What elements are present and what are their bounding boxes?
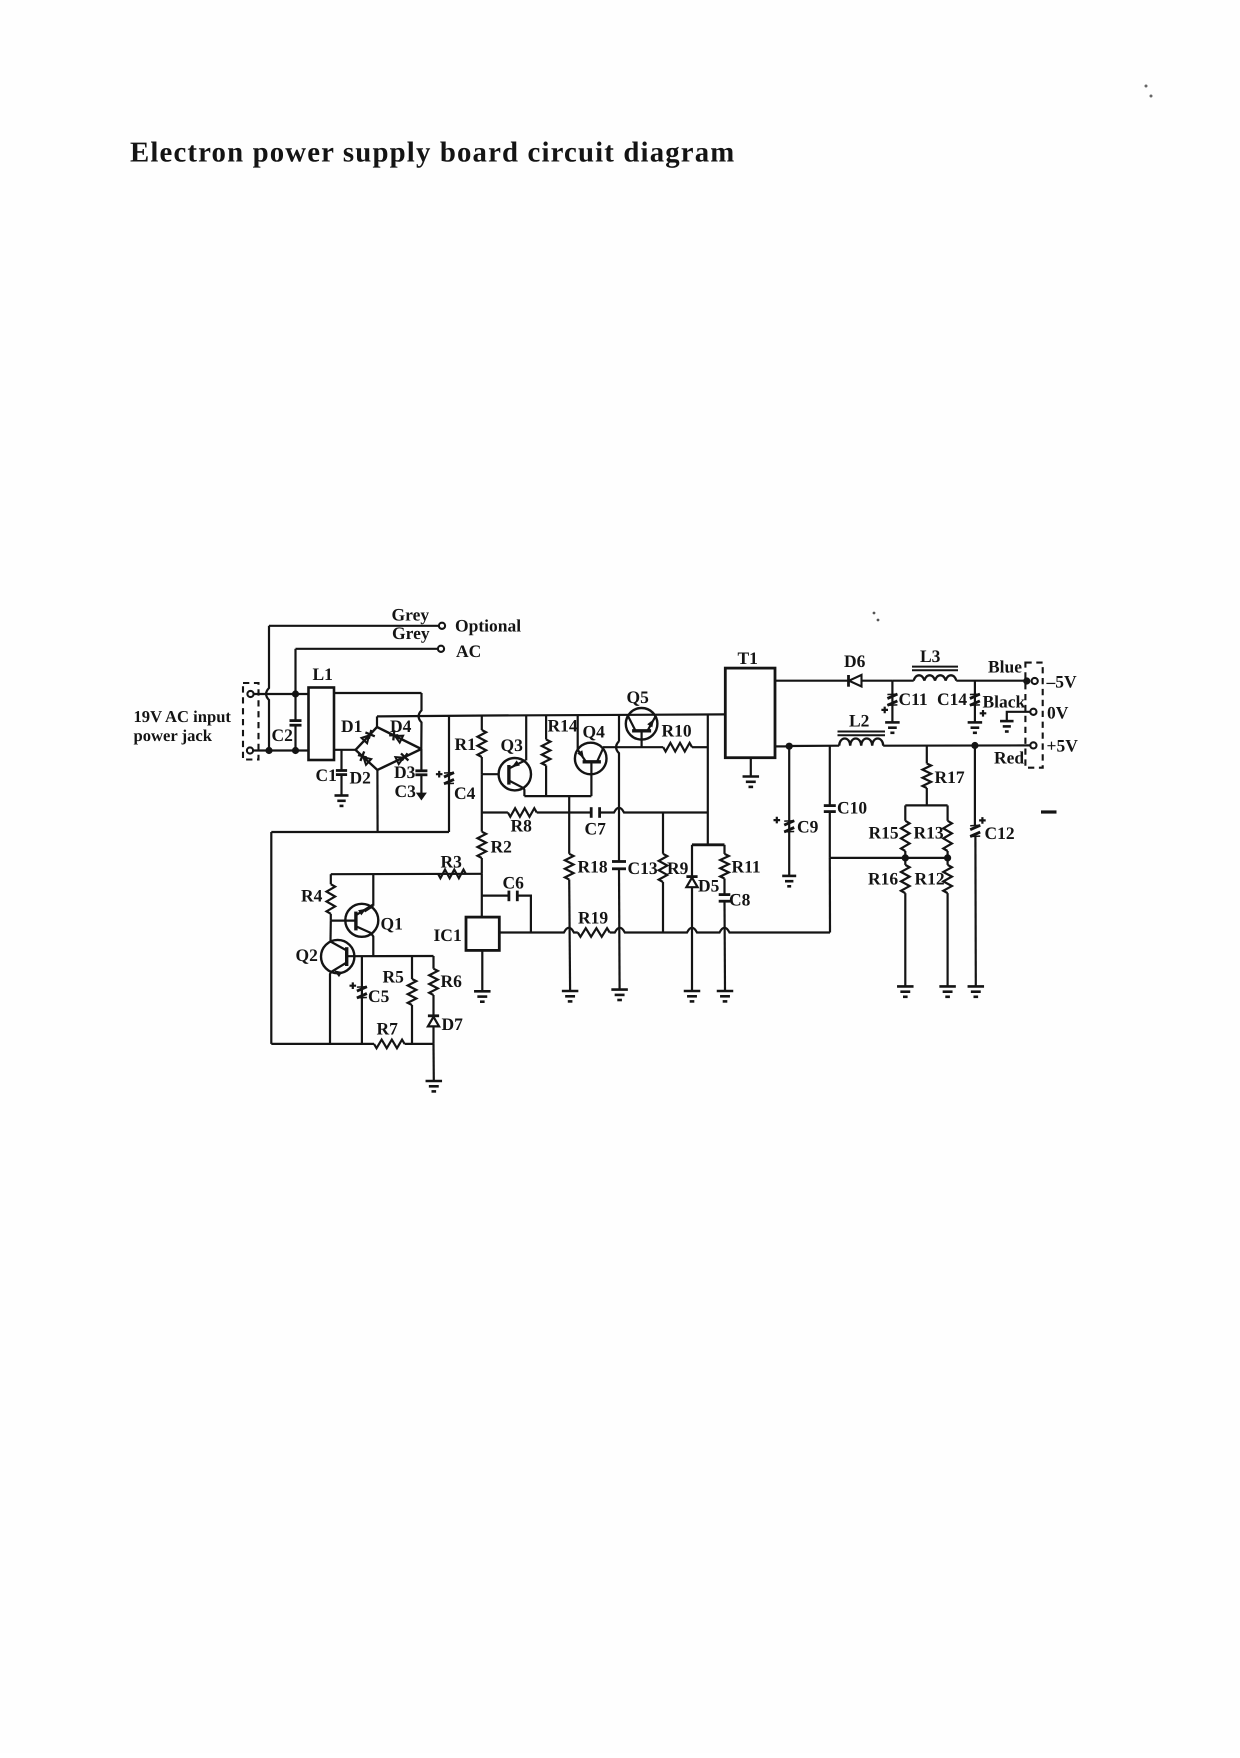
wire Q3 collector drop bbox=[523, 788, 526, 796]
ground at D7 bbox=[426, 1080, 443, 1083]
terminal +5V bbox=[1030, 742, 1036, 748]
svg-text:R8: R8 bbox=[511, 816, 533, 836]
svg-text:D4: D4 bbox=[390, 716, 412, 736]
node dot AC/C2 top bbox=[292, 690, 299, 697]
diode D5 branch bbox=[691, 845, 693, 877]
stray dash mark bbox=[1041, 810, 1057, 813]
capacitor C2 bbox=[294, 694, 296, 720]
node dot C2 bottom bbox=[292, 747, 299, 754]
wire T1 top secondary bbox=[775, 680, 848, 682]
node dot R15/R16 bbox=[902, 854, 909, 861]
ground at C14 bbox=[968, 721, 983, 724]
ground at R18 bbox=[562, 990, 579, 993]
bottom return bus with R7 bbox=[271, 1043, 374, 1045]
svg-text:Q3: Q3 bbox=[501, 735, 524, 755]
wire Q5 base stem bbox=[640, 731, 642, 747]
svg-text:R10: R10 bbox=[662, 721, 692, 741]
capacitor C12 (polarized) bbox=[974, 746, 976, 827]
resistor R17 bbox=[926, 746, 928, 764]
capacitor C9 (polarized) bbox=[788, 746, 790, 876]
wire left return drop bbox=[270, 832, 272, 1044]
svg-text:Grey: Grey bbox=[392, 623, 430, 643]
resistor R13 bbox=[946, 805, 948, 820]
svg-text:IC1: IC1 bbox=[434, 925, 462, 945]
ground at C11 bbox=[885, 721, 900, 724]
svg-text:Red: Red bbox=[994, 748, 1024, 768]
terminal Optional bbox=[439, 623, 445, 629]
resistor R1 bbox=[481, 715, 483, 730]
svg-text:C8: C8 bbox=[729, 890, 751, 910]
capacitor C1 bbox=[340, 750, 342, 770]
resistor R11 bbox=[723, 845, 725, 854]
wire bridge bottom drop bbox=[376, 770, 378, 832]
ground at R12 bbox=[939, 985, 956, 988]
ground at C12 bbox=[968, 985, 985, 988]
wire C13 branch from rail bbox=[616, 715, 619, 861]
resistor R10 bbox=[663, 743, 692, 752]
capacitor C4 (polarized) bbox=[448, 716, 450, 832]
ground at C9 bbox=[782, 875, 796, 878]
svg-text:C7: C7 bbox=[585, 819, 607, 839]
wire Q3 emitter to rail bbox=[525, 715, 527, 760]
svg-text:R18: R18 bbox=[578, 857, 608, 877]
terminal 0V bbox=[1030, 709, 1036, 715]
bridge rectifier diamond bbox=[356, 727, 422, 750]
jack terminal bottom bbox=[247, 747, 253, 753]
svg-text:D7: D7 bbox=[442, 1014, 464, 1034]
node dot optional/bottom row bbox=[265, 747, 272, 754]
transistor Q4 bbox=[575, 743, 607, 775]
svg-text:L3: L3 bbox=[920, 646, 941, 666]
svg-text:R15: R15 bbox=[869, 823, 899, 843]
capacitor C14 (polarized) bbox=[974, 681, 976, 723]
svg-text:Q1: Q1 bbox=[381, 914, 403, 934]
svg-text:power jack: power jack bbox=[134, 726, 213, 745]
ground at C1 bbox=[335, 794, 349, 797]
svg-text:Grey: Grey bbox=[392, 605, 430, 625]
wire R2 to IC1 bbox=[481, 874, 483, 917]
resistor R5 bbox=[411, 956, 413, 979]
wire optional drop crossing top row bbox=[266, 626, 269, 751]
resistor R16 bbox=[904, 858, 906, 865]
wire L1 top output bbox=[334, 692, 422, 694]
capacitor C6 bbox=[482, 894, 509, 896]
svg-text:C14: C14 bbox=[937, 689, 967, 709]
wire Q1 emitter drop bbox=[371, 933, 373, 956]
wire R1-R8 node bbox=[481, 774, 483, 812]
capacitor C3 (polarized) bbox=[420, 749, 422, 770]
svg-text:R7: R7 bbox=[377, 1019, 399, 1039]
inductor L2 bbox=[839, 739, 883, 746]
svg-text:R3: R3 bbox=[441, 852, 463, 872]
wire +5V pre-choke rail bbox=[789, 745, 839, 747]
resistor R3 bbox=[438, 870, 466, 879]
svg-text:D6: D6 bbox=[844, 651, 866, 671]
svg-text:C2: C2 bbox=[272, 725, 293, 745]
wire drop to bridge right corner (hops + rail) bbox=[419, 693, 422, 749]
IC1 box bbox=[466, 917, 499, 950]
node dot T1/C9 bbox=[786, 743, 793, 750]
svg-text:C5: C5 bbox=[368, 986, 390, 1006]
node dot R13/R12 bbox=[944, 854, 951, 861]
wire C7 right with hop over C13 bbox=[600, 808, 708, 813]
resistor R18 bbox=[568, 813, 570, 854]
terminal AC bbox=[438, 646, 444, 652]
transistor Q3 bbox=[499, 758, 531, 790]
wire Q4 base stem bbox=[590, 762, 592, 796]
diode D1 (bridge) bbox=[362, 735, 370, 743]
wire Q3 base bbox=[482, 773, 499, 775]
wire Q3 collector line y=796 bbox=[524, 795, 591, 797]
transistor Q5 bbox=[626, 708, 658, 740]
wire L3 to -5V terminal bbox=[956, 680, 1027, 682]
diode D3 (bridge) bbox=[395, 757, 403, 764]
capacitor C7 bbox=[590, 807, 593, 818]
wire Q4/Q5 base line with R10 bbox=[603, 746, 663, 748]
main + rail bbox=[377, 714, 725, 716]
terminal -5V bbox=[1032, 678, 1038, 684]
inductor L3 bbox=[914, 675, 957, 680]
wire jack bottom to L1 bbox=[253, 749, 309, 751]
svg-text:Q4: Q4 bbox=[583, 722, 606, 742]
svg-text:C4: C4 bbox=[454, 783, 476, 803]
feedback bus with R19 and hops bbox=[499, 928, 578, 933]
svg-text:D3: D3 bbox=[394, 762, 416, 782]
svg-text:R5: R5 bbox=[383, 967, 405, 987]
resistor R2 bbox=[481, 813, 483, 832]
node dot +5V/C12 bbox=[971, 742, 978, 749]
D5/R11 box top bbox=[692, 843, 725, 846]
wire C10 to junction line bbox=[829, 812, 831, 858]
svg-text:R11: R11 bbox=[732, 857, 761, 877]
svg-text:C12: C12 bbox=[985, 823, 1015, 843]
wire Q1 collector drop bbox=[372, 874, 374, 906]
resistor R6 bbox=[432, 956, 434, 969]
diode D7 bbox=[428, 1014, 439, 1017]
svg-text:Electron power supply board ci: Electron power supply board circuit diag… bbox=[130, 137, 735, 169]
svg-text:–5V: –5V bbox=[1046, 672, 1078, 692]
svg-text:R16: R16 bbox=[868, 869, 898, 889]
svg-text:L2: L2 bbox=[849, 711, 869, 731]
wire rail drop x=708 bbox=[707, 715, 709, 845]
svg-text:D5: D5 bbox=[698, 876, 720, 896]
wire IC1 bottom stem bbox=[481, 950, 483, 991]
svg-text:C13: C13 bbox=[628, 858, 658, 878]
svg-text:R6: R6 bbox=[441, 971, 463, 991]
wire AC drop to top row bbox=[294, 649, 296, 694]
svg-text:R14: R14 bbox=[548, 716, 578, 736]
R15/R13 box top bbox=[905, 804, 947, 806]
svg-text:R9: R9 bbox=[667, 858, 689, 878]
wire R4 to Q1 base bbox=[330, 914, 332, 921]
svg-text:R13: R13 bbox=[914, 823, 944, 843]
svg-text:AC: AC bbox=[456, 641, 481, 661]
svg-text:C3: C3 bbox=[395, 781, 417, 801]
capacitor C8 bbox=[719, 893, 731, 896]
wire R4/R3 top line bbox=[331, 873, 482, 876]
diode D4 (bridge) bbox=[395, 736, 403, 743]
svg-text:C9: C9 bbox=[797, 817, 819, 837]
scan speckles bbox=[873, 612, 876, 615]
ground at R16 bbox=[897, 985, 914, 988]
svg-text:C1: C1 bbox=[316, 765, 337, 785]
wire 0V terminal to ground bbox=[1007, 712, 1031, 721]
capacitor C10 bbox=[829, 746, 831, 805]
resistor R15 bbox=[904, 805, 906, 820]
resistor R4 bbox=[330, 874, 332, 884]
svg-text:R2: R2 bbox=[491, 837, 512, 857]
jack terminal top bbox=[247, 691, 253, 697]
resistor R14 bbox=[545, 715, 547, 739]
ground at C8 bbox=[717, 990, 734, 993]
svg-text:0V: 0V bbox=[1047, 703, 1069, 723]
wire jack top to L1 bbox=[254, 693, 309, 695]
choke L1 bbox=[309, 688, 335, 761]
svg-text:R12: R12 bbox=[915, 869, 945, 889]
wire Optional grey lead bbox=[269, 625, 439, 627]
transistor Q2 bbox=[321, 940, 354, 973]
capacitor C11 (polarized) bbox=[891, 681, 893, 723]
diode D2 (bridge) bbox=[363, 757, 371, 765]
wire bridge top corner stub to + rail bbox=[376, 716, 378, 727]
wire R8 to C7 bbox=[537, 811, 592, 813]
wire L2 to +5V terminal bbox=[883, 744, 1030, 746]
svg-text:C11: C11 bbox=[899, 689, 928, 709]
wire D6 to L3 bbox=[892, 680, 913, 682]
node dot -5V bbox=[1023, 677, 1030, 684]
svg-text:R1: R1 bbox=[455, 734, 476, 754]
capacitor C13 bbox=[612, 860, 626, 863]
wire base node down to Q2 bbox=[329, 921, 331, 942]
svg-text:R17: R17 bbox=[935, 767, 965, 787]
ground at 0V lead bbox=[1000, 720, 1014, 723]
resistor R7 bbox=[374, 1040, 405, 1049]
ground at IC1 bbox=[474, 990, 491, 993]
input jack J1 dashed outline bbox=[243, 683, 259, 760]
svg-text:19V AC input: 19V AC input bbox=[134, 707, 232, 726]
wire return line y=832 bbox=[271, 831, 449, 833]
wire D7 to ground bbox=[432, 1044, 434, 1081]
svg-text:D1: D1 bbox=[341, 716, 362, 736]
wire R18 top stub bbox=[568, 796, 570, 812]
wire L1 bottom to bridge left corner bbox=[334, 749, 356, 751]
wire bus riser bbox=[829, 858, 831, 933]
svg-text:+5V: +5V bbox=[1047, 736, 1079, 756]
wire Q4 emitter to rail bbox=[577, 715, 579, 750]
svg-text:L1: L1 bbox=[313, 664, 333, 684]
wire T1 bottom stem bbox=[750, 758, 752, 777]
wire Q2 emitter drop bbox=[330, 972, 331, 1044]
transformer T1 box bbox=[725, 668, 775, 758]
ground at T1 bbox=[743, 775, 760, 778]
wire AC grey lead bbox=[296, 648, 439, 650]
svg-text:Optional: Optional bbox=[455, 616, 521, 636]
capacitor C5 (polarized) bbox=[361, 956, 363, 1044]
resistor R9 bbox=[662, 813, 664, 854]
svg-text:Black: Black bbox=[983, 692, 1026, 712]
svg-text:T1: T1 bbox=[738, 648, 758, 668]
transistor Q1 bbox=[345, 904, 378, 937]
resistor R19 bbox=[578, 928, 610, 937]
svg-text:C10: C10 bbox=[837, 798, 867, 818]
wire T1 bottom secondary bbox=[775, 745, 789, 747]
ground at D5 bbox=[684, 990, 701, 993]
svg-text:R4: R4 bbox=[301, 886, 323, 906]
svg-text:R19: R19 bbox=[578, 908, 608, 928]
output connector dashed outline bbox=[1025, 663, 1042, 768]
svg-text:Q5: Q5 bbox=[627, 687, 650, 707]
resistor R12 bbox=[946, 858, 948, 865]
resistor R8 bbox=[482, 811, 508, 813]
svg-text:D2: D2 bbox=[350, 768, 371, 788]
diode D6 bbox=[847, 675, 850, 687]
svg-text:C6: C6 bbox=[503, 873, 525, 893]
wire Q2 base line bbox=[347, 955, 434, 957]
wire divider junction line bbox=[830, 857, 948, 859]
ground at C13 bbox=[611, 988, 628, 991]
svg-text:Blue: Blue bbox=[988, 657, 1022, 677]
svg-text:Q2: Q2 bbox=[296, 945, 318, 965]
